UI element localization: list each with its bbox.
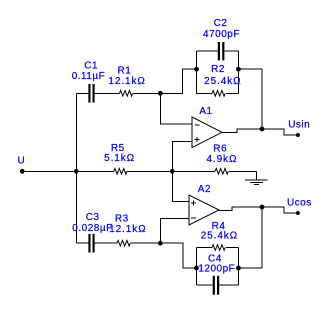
node: central cross [170, 169, 175, 174]
wire: A1 non-inverting input from node [172, 142, 192, 172]
wire: top feedback loop [197, 51, 239, 93]
svg-text:5.1kΩ: 5.1kΩ [104, 153, 135, 164]
node: bottom loop right [236, 266, 241, 271]
svg-text:0.028µF: 0.028µF [72, 223, 112, 234]
wire: to A1 inverting input [160, 93, 192, 124]
wire: loop right to Ucos node [238, 207, 262, 268]
resistor R3 [117, 240, 130, 246]
capacitor C4 [213, 276, 215, 295]
node: Usin net [260, 127, 265, 132]
node: loop left [194, 67, 199, 72]
A1 plus pin [195, 137, 200, 142]
svg-text:R1: R1 [118, 65, 132, 76]
svg-text:Usin: Usin [288, 119, 310, 130]
op-amp A1 [192, 117, 222, 148]
svg-text:4700pF: 4700pF [203, 29, 240, 40]
terminal U [20, 169, 25, 174]
node: R3/A2- junction [158, 241, 163, 246]
resistor R5 [114, 169, 127, 175]
terminal Usin [296, 133, 300, 137]
resistor R2 [212, 91, 225, 97]
capacitor C2 [218, 42, 220, 60]
terminal Ucos [296, 211, 300, 215]
svg-text:25.4kΩ: 25.4kΩ [204, 76, 241, 87]
wire: branch vertical [75, 93, 77, 243]
wire: bottom branch [76, 243, 196, 268]
svg-text:R3: R3 [115, 214, 129, 225]
svg-text:C3: C3 [86, 212, 100, 223]
node: branch junction [74, 169, 79, 174]
node: Ucos net [260, 205, 265, 210]
svg-text:4.9kΩ: 4.9kΩ [206, 154, 237, 165]
resistor R4 [212, 245, 225, 251]
svg-text:12.1kΩ: 12.1kΩ [109, 224, 146, 235]
wire: A2 output [219, 207, 298, 213]
svg-text:U: U [18, 155, 26, 166]
wire: top branch [76, 69, 196, 93]
svg-text:A2: A2 [198, 184, 211, 195]
A2 minus pin [191, 217, 196, 219]
resistor R1 [120, 91, 133, 97]
A1 minus pin [195, 124, 200, 126]
svg-text:A1: A1 [199, 106, 212, 117]
node: loop right [236, 67, 241, 72]
svg-text:25.4kΩ: 25.4kΩ [201, 230, 238, 241]
svg-text:12.1kΩ: 12.1kΩ [108, 76, 145, 87]
svg-text:R6: R6 [213, 143, 227, 154]
svg-text:C2: C2 [214, 18, 228, 29]
resistor R6 [215, 169, 228, 175]
capacitor C1 [88, 84, 90, 103]
wire: A1 output [222, 129, 298, 135]
wire: loop right to output node [238, 69, 262, 129]
svg-text:0.11µF: 0.11µF [72, 71, 106, 82]
svg-text:Ucos: Ucos [287, 197, 312, 208]
svg-text:R2: R2 [211, 64, 225, 75]
node: R1/A1- junction [158, 91, 163, 96]
op-amp A2 [189, 195, 219, 225]
ground [245, 171, 268, 184]
wire: bottom feedback loop [197, 248, 239, 286]
wire: A2 non-inverting input from node [172, 171, 189, 201]
wire: main input line U to ground [22, 170, 257, 172]
node: bottom loop left [194, 266, 199, 271]
A2 plus pin [191, 201, 196, 206]
wire: A2 inverting input [160, 218, 189, 243]
svg-text:1200pF: 1200pF [198, 263, 235, 274]
capacitor C3 [88, 234, 90, 253]
